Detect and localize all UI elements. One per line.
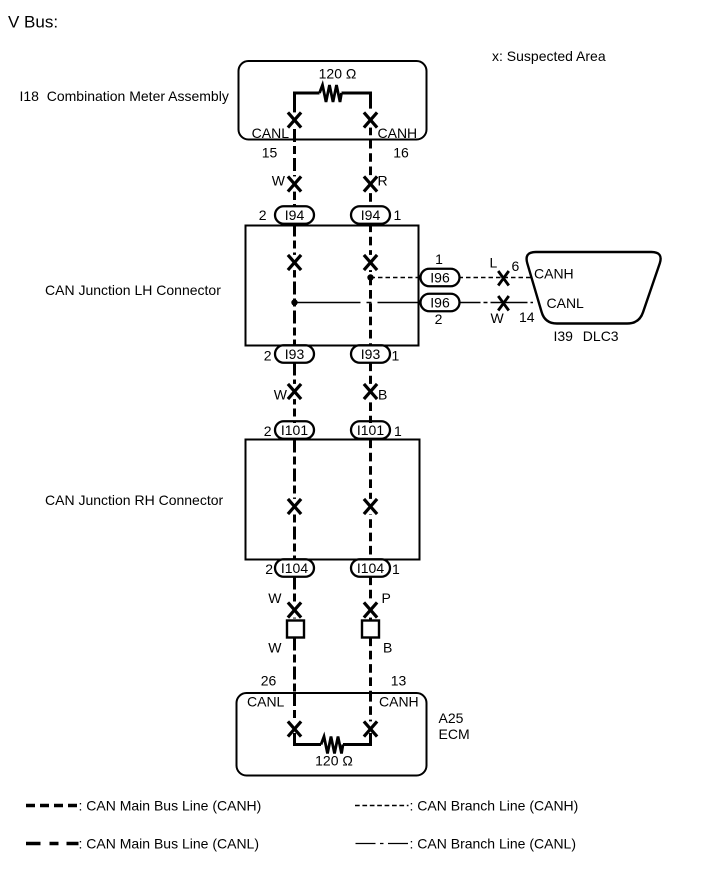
suspect point X wire P (lower) <box>364 602 377 617</box>
wire CAN branch CANH (inside box) <box>371 277 422 279</box>
wire CANL main bus (ECM internal) <box>293 693 296 731</box>
svg-text:I101: I101 <box>357 422 384 438</box>
legend main bus CANL sample line <box>26 842 79 846</box>
svg-text:2: 2 <box>259 207 267 223</box>
svg-text:I96: I96 <box>430 270 450 286</box>
svg-text:I104: I104 <box>357 560 384 576</box>
suspect point X RH CANH <box>364 499 377 514</box>
svg-text:B: B <box>383 640 392 656</box>
legend branch CANH sample line <box>355 805 409 807</box>
svg-text:CAN Junction LH Connector: CAN Junction LH Connector <box>45 282 221 298</box>
svg-text:I94: I94 <box>361 207 381 223</box>
svg-text:P: P <box>382 590 391 606</box>
svg-text:W: W <box>268 640 282 656</box>
wire CANH main bus (I93 to I101) <box>369 363 372 424</box>
svg-text:13: 13 <box>391 673 407 689</box>
wire resistor bottom-right stub <box>343 733 371 745</box>
svg-text:1: 1 <box>392 561 400 577</box>
suspect point X LH CANH <box>364 255 377 270</box>
CAN junction LH connector box <box>246 226 419 346</box>
svg-text:I93: I93 <box>285 346 305 362</box>
svg-text:: CAN Main Bus Line (CANH): : CAN Main Bus Line (CANH) <box>79 798 262 814</box>
wire CANH main bus (ECM internal) <box>369 693 372 731</box>
svg-text:x: Suspected Area: x: Suspected Area <box>492 48 606 64</box>
wire CANL main bus (I93 to I101) <box>293 363 296 424</box>
wire CAN branch CANH to DLC3 <box>459 277 532 279</box>
connector I101 right oval <box>351 421 390 439</box>
connector I93 left oval <box>275 345 314 363</box>
svg-text:1: 1 <box>392 348 400 364</box>
suspect point X ECM CANH <box>364 721 377 736</box>
wire CANH main bus (splice to ECM) <box>369 638 372 694</box>
wire CANL main bus (LH box) <box>293 224 296 346</box>
svg-text:V Bus:: V Bus: <box>8 13 58 32</box>
svg-text:: CAN Branch Line (CANL): : CAN Branch Line (CANL) <box>410 836 577 852</box>
suspect point X wire W (lower) <box>288 602 301 617</box>
svg-text:14: 14 <box>519 309 535 325</box>
wire CANH main bus (I104 to splice) <box>369 577 372 621</box>
svg-text:: CAN Main Bus Line (CANL): : CAN Main Bus Line (CANL) <box>79 836 260 852</box>
connector I104 right oval <box>351 559 390 577</box>
splice square left <box>287 621 304 638</box>
svg-text:CANH: CANH <box>379 694 419 710</box>
svg-text:L: L <box>490 255 498 271</box>
svg-text:1: 1 <box>394 423 402 439</box>
svg-text:I101: I101 <box>281 422 308 438</box>
suspect point X meter CANH <box>364 112 377 127</box>
svg-text:I39: I39 <box>554 328 574 344</box>
svg-text:120 Ω: 120 Ω <box>319 66 357 82</box>
connector I96 top oval <box>421 269 460 287</box>
svg-text:120 Ω: 120 Ω <box>315 753 353 769</box>
svg-text:CANH: CANH <box>378 125 418 141</box>
suspect point X wire W (mid) <box>288 384 301 399</box>
wire CANL main bus (I104 to splice) <box>293 577 296 621</box>
svg-text:I18 Combination Meter Assembl: I18 Combination Meter Assembly <box>20 88 229 104</box>
wire resistor top-left stub <box>295 93 320 104</box>
svg-text:: CAN Branch Line (CANH): : CAN Branch Line (CANH) <box>410 798 579 814</box>
svg-text:W: W <box>272 173 286 189</box>
combination meter box I18 <box>239 61 427 140</box>
suspect point X LH CANL <box>288 255 301 270</box>
splice square right <box>362 621 379 638</box>
wire CANL main bus (meter internal) <box>293 100 296 207</box>
svg-text:6: 6 <box>512 258 520 274</box>
svg-text:1: 1 <box>394 207 402 223</box>
suspect point X RH CANL <box>288 499 301 514</box>
legend main bus CANH sample line <box>26 804 78 808</box>
wire CANH main bus (meter internal) <box>369 100 372 207</box>
legend branch CANL sample line <box>356 843 409 845</box>
connector I94 right oval <box>351 206 390 224</box>
svg-text:2: 2 <box>435 311 443 327</box>
svg-text:ECM: ECM <box>439 726 470 742</box>
connector I93 right oval <box>351 345 390 363</box>
svg-text:W: W <box>268 590 282 606</box>
svg-text:2: 2 <box>264 348 272 364</box>
svg-text:W: W <box>491 310 505 326</box>
svg-text:CANL: CANL <box>252 125 290 141</box>
suspect point X wire B (mid) <box>364 384 377 399</box>
svg-text:CAN Junction RH Connector: CAN Junction RH Connector <box>45 492 224 508</box>
wire CANL main bus (RH box) <box>293 440 296 560</box>
svg-text:CANH: CANH <box>534 266 574 282</box>
wire resistor bottom-left stub <box>295 733 322 745</box>
ECM box A25 <box>237 693 427 776</box>
suspect point X wire R <box>364 176 377 191</box>
connector I94 left oval <box>275 206 314 224</box>
DLC3 connector body I39 <box>527 252 661 324</box>
connector I96 bottom oval <box>421 294 460 312</box>
wire CANL main bus (splice to ECM) <box>293 638 296 694</box>
svg-text:I93: I93 <box>361 346 381 362</box>
svg-text:I104: I104 <box>281 560 308 576</box>
svg-text:DLC3: DLC3 <box>583 328 619 344</box>
svg-text:B: B <box>378 387 387 403</box>
svg-text:16: 16 <box>393 145 409 161</box>
CAN junction RH connector box <box>246 440 420 560</box>
suspect point X branch CANL <box>498 296 509 311</box>
suspect point X branch CANH <box>498 271 509 286</box>
resistor 120 ohm (ECM) <box>321 737 343 754</box>
connector I104 left oval <box>275 559 314 577</box>
suspect point X meter CANL <box>288 112 301 127</box>
svg-text:CANL: CANL <box>247 694 285 710</box>
junction dot CANL branch <box>291 299 297 305</box>
svg-text:1: 1 <box>435 251 443 267</box>
connector I101 left oval <box>275 421 314 439</box>
svg-text:W: W <box>274 387 288 403</box>
svg-text:I96: I96 <box>430 295 450 311</box>
resistor 120 ohm (meter) <box>320 85 342 102</box>
wire CANH main bus (LH box) <box>369 224 372 346</box>
svg-text:2: 2 <box>265 561 273 577</box>
suspect point X wire W <box>288 176 301 191</box>
wire resistor top-right stub <box>342 93 371 104</box>
svg-text:I94: I94 <box>285 207 305 223</box>
svg-text:CANL: CANL <box>547 295 585 311</box>
svg-text:A25: A25 <box>439 710 464 726</box>
suspect point X ECM CANL <box>288 721 301 736</box>
wire CANH main bus (RH box) <box>369 440 372 560</box>
wire CAN branch CANL (inside box) <box>295 302 422 304</box>
svg-text:15: 15 <box>262 145 278 161</box>
junction dot CANH branch <box>367 274 373 280</box>
wire CAN branch CANL to DLC3 <box>459 302 534 304</box>
svg-text:2: 2 <box>264 423 272 439</box>
svg-text:R: R <box>378 173 388 189</box>
svg-text:26: 26 <box>261 673 277 689</box>
